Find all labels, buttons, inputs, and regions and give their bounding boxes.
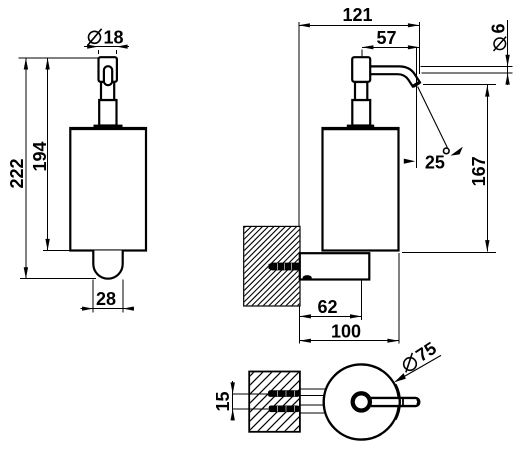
svg-text:194: 194 <box>30 141 50 171</box>
front neck <box>101 82 114 100</box>
wall face ext down <box>298 306 300 344</box>
svg-text:100: 100 <box>331 321 361 341</box>
angle 25 left arrow <box>404 159 416 164</box>
angle 25 leader <box>418 87 448 148</box>
dim 100 arrow right <box>387 339 399 343</box>
dim Ø75 leader <box>396 355 442 381</box>
dim 15 ext lines <box>233 393 269 395</box>
dim 121 arrow right <box>408 23 420 27</box>
svg-text:62: 62 <box>317 297 337 317</box>
dim 57 left ext <box>361 50 363 57</box>
svg-text:167: 167 <box>469 156 489 186</box>
holder bracket <box>300 253 370 279</box>
svg-text:25: 25 <box>425 152 445 172</box>
wall screw (side) <box>269 263 300 271</box>
wall section (top view) <box>190 368 357 436</box>
pump inner ring (plan) <box>353 393 370 410</box>
dim 15 arrow up <box>231 409 235 421</box>
front bottom cap <box>93 251 122 279</box>
dim Ø6 arrow up <box>505 73 509 85</box>
dim 167 arrow down <box>485 240 489 252</box>
bracket arm top <box>300 388 330 390</box>
side pump head <box>352 57 370 82</box>
dim 194 arrow up <box>45 58 49 70</box>
dim 222 arrow down <box>24 267 28 279</box>
dim Ø18 arrow left <box>87 45 98 49</box>
dim Ø6 ext lines <box>421 65 513 67</box>
front head slot <box>104 66 112 85</box>
holder set-screw dot <box>303 275 312 280</box>
dim 100 arrow left <box>299 339 311 343</box>
svg-text:6: 6 <box>488 23 508 33</box>
dim 28 arrow left <box>82 307 93 311</box>
dim 121 arrow left <box>298 23 310 27</box>
dim 167 line <box>486 85 488 252</box>
dim 62 arrow left <box>299 314 311 318</box>
side flange <box>347 125 374 130</box>
dim 28 arrow right <box>123 307 134 311</box>
dim 167 arrow up <box>485 85 489 97</box>
circle arc redrawn over bar <box>396 385 400 420</box>
dim 167 bottom ext <box>402 251 496 253</box>
top reference line <box>19 57 99 59</box>
dim Ø18 ext dashes <box>97 50 99 54</box>
dim Ø6 symbol <box>494 37 507 51</box>
dim 121 line <box>298 24 419 26</box>
dim 62 line <box>299 315 361 317</box>
front collar <box>99 100 116 126</box>
svg-text:121: 121 <box>342 5 372 25</box>
side collar <box>352 100 370 126</box>
dim 194 arrow down <box>45 239 49 251</box>
dim 57 arrow right <box>408 45 420 49</box>
dim 62 ext right <box>361 280 363 320</box>
dim 194 ext line <box>43 249 70 251</box>
bottom reference line (cap tip) <box>20 278 96 280</box>
bracket arm bottom <box>300 404 330 406</box>
front body <box>70 128 146 251</box>
svg-text:222: 222 <box>7 158 27 188</box>
side neck <box>355 82 367 100</box>
dim 121 left ext line <box>298 22 300 226</box>
front body top edge thick <box>70 127 147 130</box>
dim 15 arrow down <box>231 382 235 394</box>
dim 57 arrow left <box>362 45 374 49</box>
svg-text:18: 18 <box>103 28 123 48</box>
dim Ø18 symbol <box>87 29 101 46</box>
right ext line A (spout tip outer) <box>418 22 420 74</box>
vertical reference line B through tip <box>416 47 418 168</box>
dim Ø18 line <box>84 46 129 48</box>
front flange <box>94 125 123 130</box>
spout end cap thick <box>413 82 420 86</box>
dim 194 line <box>47 58 49 250</box>
dim 222 line <box>25 58 27 279</box>
dim 57 line <box>362 46 420 48</box>
dim 62 arrow right <box>350 314 362 318</box>
dim 100 right ext <box>398 253 400 344</box>
screw bottom (plan) <box>269 406 300 413</box>
dim 28 line <box>81 308 135 310</box>
front pump head <box>99 57 117 82</box>
dim 15 line <box>232 381 234 421</box>
side body <box>323 128 399 251</box>
dim Ø6 arrow down <box>505 55 509 66</box>
dim 222 arrow up <box>24 58 28 70</box>
angle 25 right arrow <box>450 147 462 156</box>
dim 28 ext lines <box>92 280 94 313</box>
svg-text:15: 15 <box>213 391 233 411</box>
dim Ø18 arrow right <box>117 45 128 49</box>
screw top (plan) <box>268 390 300 397</box>
dim Ø75 symbol <box>404 353 417 373</box>
spout tube <box>370 66 420 86</box>
side body top edge thick <box>322 127 399 130</box>
angle 25 degree circle <box>444 148 450 154</box>
dim Ø6 line <box>507 20 509 85</box>
dim 100 line <box>299 340 399 342</box>
dim 167 top ext <box>423 84 496 86</box>
wall section (side) <box>162 222 381 310</box>
svg-text:57: 57 <box>376 28 396 48</box>
spout bar (plan) <box>371 398 419 406</box>
body circle (plan) <box>324 364 399 439</box>
svg-text:28: 28 <box>96 289 116 309</box>
dim Ø75 arrow <box>395 373 406 382</box>
